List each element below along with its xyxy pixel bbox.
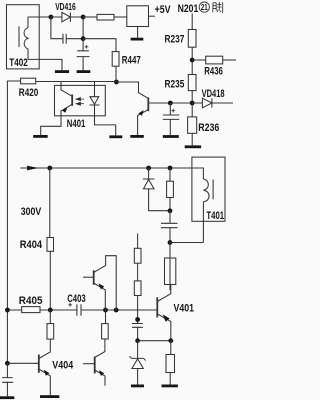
ground under T402 bottom wire: [55, 70, 69, 73]
wire node F to R436: [192, 59, 206, 61]
resistor R235: [188, 75, 196, 91]
node H junction dot: [47, 166, 52, 171]
node R junction dot: [114, 308, 119, 313]
svg-text:R447: R447: [122, 55, 141, 67]
wire node I2 down through V404 collector resistor: [39, 310, 51, 359]
transformer T401 box: [192, 157, 225, 221]
zener diode (bottom): [130, 341, 146, 385]
lower driver transistor base lead: [83, 363, 95, 365]
coupling capacitor (middle column): [132, 324, 143, 341]
wire R404 to node I: [49, 251, 51, 310]
resistor R436: [206, 56, 223, 64]
output transistor V401 emitter arrow: [163, 314, 170, 321]
svg-text:T401: T401: [206, 210, 224, 222]
5V regulator box: [127, 6, 149, 27]
output transistor V401 base bar: [156, 297, 158, 317]
svg-text:R237: R237: [165, 33, 185, 45]
node M junction dot: [168, 240, 173, 245]
svg-text:VD418: VD418: [202, 88, 225, 100]
wire node C to R447 top: [83, 39, 116, 52]
diode VD418: [192, 98, 233, 108]
resistor R405: [22, 307, 40, 313]
node I2 junction dot: [48, 308, 53, 313]
base rail (bottom): [7, 309, 156, 311]
node B junction dot: [81, 15, 86, 20]
electrolytic capacitor plus sign (sense): [171, 109, 175, 113]
wire between middle column resistors: [137, 263, 139, 281]
wire R237 to node F: [191, 47, 193, 74]
transistor V404 emitter arrow: [44, 370, 50, 376]
optocoupler N401 box: [55, 85, 106, 115]
wire node O to node P: [138, 340, 171, 342]
node L junction dot: [168, 208, 173, 213]
node P junction dot: [168, 338, 173, 343]
output transistor V401 emitter: [157, 314, 171, 341]
ground under 5V regulator: [131, 38, 144, 41]
wire left rail top corner to R420: [7, 81, 20, 363]
wire regulator output: [149, 15, 156, 17]
transformer T402 winding: [24, 17, 28, 59]
svg-text:+5V: +5V: [155, 4, 172, 16]
B+ line with arrow: [20, 167, 203, 169]
electrolytic capacitor (sense node): [163, 103, 179, 135]
ground under left rail capacitor: [0, 396, 14, 399]
transformer T401 core bar: [212, 180, 214, 200]
wire rail to V404 base: [7, 362, 38, 364]
wire resistor to 5V regulator: [114, 16, 127, 18]
output transistor V401 collector: [157, 285, 171, 302]
wire node P to emitter resistor and ground: [169, 341, 172, 385]
wire pin21 to R237: [191, 14, 193, 30]
node J junction dot (snubber diode tap): [146, 166, 151, 171]
node O junction dot: [135, 338, 140, 343]
node E junction dot: [168, 101, 173, 106]
capacitor (horizontal, top-left): [51, 17, 83, 44]
resistor R404: [47, 238, 54, 252]
transistor V402 emitter: [138, 110, 149, 135]
ground under zener: [131, 385, 144, 388]
B+ arrow head: [27, 166, 39, 171]
transistor V402 emitter arrow: [138, 110, 143, 116]
damper resistor (large): [165, 258, 176, 285]
opto phototransistor emitter: [41, 104, 72, 135]
lower driver transistor emitter: [95, 370, 105, 386]
wire R447 bottom to node D: [115, 66, 117, 82]
svg-text:V401: V401: [174, 303, 195, 315]
svg-text:R235: R235: [165, 78, 185, 90]
ground under V404 emitter: [40, 395, 59, 398]
node A junction dot: [49, 15, 54, 20]
circled pin number 21: [199, 2, 209, 12]
wire middle column to coupling cap: [137, 296, 139, 324]
wire node B to resistor: [83, 16, 97, 18]
transistor V404 base bar: [38, 355, 40, 373]
ground under R236: [185, 145, 201, 148]
opto phototransistor base bar: [71, 95, 73, 106]
opto LED triangle: [90, 97, 99, 105]
ground under sense capacitor: [163, 135, 179, 138]
label jiao (Chinese: pin): [213, 2, 223, 13]
wire node D to V402 collector: [116, 82, 148, 98]
svg-text:R405: R405: [19, 295, 43, 307]
resistor (middle column upper): [134, 248, 141, 263]
svg-text:R436: R436: [204, 66, 223, 78]
wire T402 bottom to ground: [28, 59, 62, 70]
opto light arrow 2: [76, 102, 84, 105]
ground under V402 emitter: [130, 135, 144, 138]
middle column top wire: [137, 234, 139, 249]
resistor R236: [188, 117, 197, 133]
svg-text:21: 21: [201, 3, 208, 12]
resistor (middle column lower): [134, 281, 141, 296]
driver transistor (upper) base lead: [83, 276, 94, 278]
svg-text:R420: R420: [19, 87, 39, 99]
wire V402 base to sense node: [148, 102, 192, 104]
wire node B down to node C: [82, 17, 84, 39]
lower driver transistor emitter arrow: [99, 370, 104, 376]
lower driver transistor base bar: [94, 357, 96, 374]
driver resistor (lower): [102, 324, 109, 339]
driver transistor (upper) collector loop: [94, 256, 117, 310]
resistor R237: [188, 30, 196, 48]
node D junction dot: [114, 80, 119, 85]
wire node M to damper resistor: [169, 243, 171, 291]
driver transistor (upper) emitter: [94, 283, 106, 310]
transformer T402 box: [7, 5, 40, 69]
node G junction dot: [190, 101, 195, 106]
transistor V404 emitter: [39, 369, 51, 395]
opto phototransistor emitter arrow: [62, 107, 67, 113]
wire R436 to right edge: [223, 59, 236, 61]
opto phototransistor collector pin: [61, 82, 72, 97]
transformer T402 core bar: [18, 26, 20, 47]
driver transistor (upper) base bar: [93, 270, 95, 285]
wire node Q down to driver resistor: [105, 310, 107, 324]
snubber capacitor: [161, 211, 178, 243]
node S junction dot: [5, 361, 10, 366]
ground under opto LED: [109, 135, 122, 138]
node K junction dot: [168, 166, 173, 171]
node N junction dot: [135, 317, 140, 322]
opto light arrow 1: [76, 98, 84, 101]
resistor R420: [21, 78, 36, 84]
transformer T401 winding: [203, 168, 209, 243]
svg-text:T402: T402: [9, 57, 28, 69]
wire R235 to sense node G: [191, 91, 193, 117]
diode VD416: [51, 12, 83, 22]
emitter resistor V401: [166, 355, 175, 373]
ground under electrolytic capacitor: [77, 70, 91, 73]
capacitor C403: [77, 304, 80, 316]
svg-text:N401: N401: [67, 118, 86, 130]
wire T401 bottom to node M: [170, 242, 203, 244]
capacitor C403 plus sign: [68, 303, 72, 307]
left rail bottom capacitor: [2, 363, 13, 396]
node F junction dot: [190, 58, 195, 63]
transistor V402 base bar: [147, 97, 149, 111]
snubber resistor: [167, 181, 174, 197]
ground under emitter resistor: [162, 385, 178, 388]
electrolytic capacitor plus sign: [85, 45, 89, 49]
electrolytic capacitor (top area): [77, 39, 90, 70]
wire regulator to ground: [137, 27, 139, 38]
V404 collector resistor: [47, 324, 54, 340]
node I junction dot: [5, 308, 10, 313]
svg-text:VD416: VD416: [55, 1, 76, 13]
node Q junction dot: [103, 308, 108, 313]
resistor R447: [112, 52, 119, 67]
wire R420 to node D: [36, 81, 117, 83]
svg-text:V404: V404: [52, 360, 74, 372]
svg-text:R236: R236: [198, 122, 219, 134]
svg-text:R404: R404: [20, 239, 43, 251]
svg-text:300V: 300V: [21, 206, 42, 218]
wire node K through snubber resistor: [169, 168, 171, 211]
resistor (unlabeled, top): [97, 14, 114, 20]
snubber diode (cathode up): [143, 168, 170, 211]
wire T402 top to node A: [28, 16, 51, 18]
node C junction dot: [81, 36, 86, 41]
driver transistor (upper) emitter arrow: [99, 283, 105, 289]
wire node H down to R404: [49, 168, 51, 238]
opto LED anode wire: [94, 82, 96, 97]
wire driver resistor to lower transistor collector: [95, 339, 105, 358]
wire R236 to ground: [191, 133, 193, 145]
svg-text:N201: N201: [178, 3, 199, 15]
ground under opto emitter: [33, 135, 48, 138]
opto LED cathode bar and wire: [90, 104, 116, 135]
